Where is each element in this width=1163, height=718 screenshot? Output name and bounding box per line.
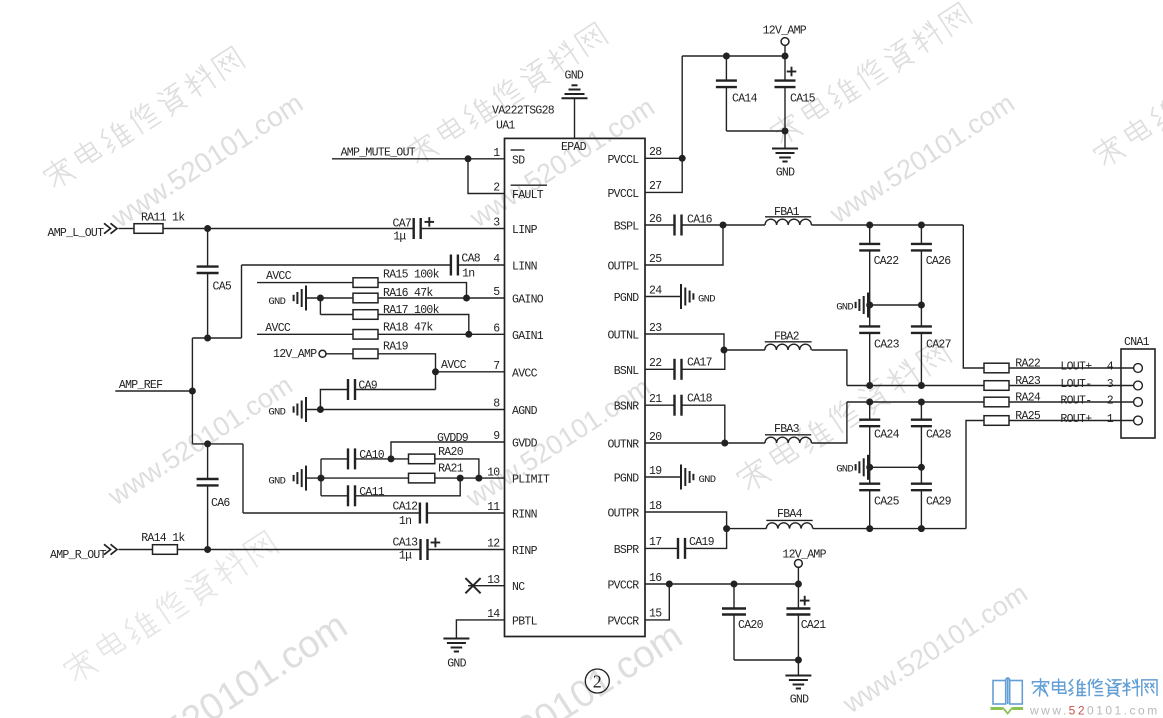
svg-text:520101.com: 520101.com xyxy=(157,605,355,718)
svg-text:BSPL: BSPL xyxy=(614,221,640,234)
svg-text:520101.com: 520101.com xyxy=(492,615,690,718)
node AMP_REF xyxy=(115,379,192,392)
svg-text:CA15: CA15 xyxy=(790,93,816,106)
junction CA26 top xyxy=(918,222,925,229)
resistor RA15 100k xyxy=(353,269,440,288)
junction top rail at CA15 xyxy=(782,53,789,60)
ground GND (PBTL) xyxy=(443,639,469,671)
wire LOUT+ feed xyxy=(963,225,984,368)
resistor RA14 1k xyxy=(141,532,185,554)
wire branch to pin 2 xyxy=(468,159,505,194)
wire CA9 left to gnd rail xyxy=(320,390,348,410)
junction CA6 top xyxy=(204,440,211,447)
svg-text:17: 17 xyxy=(649,536,661,549)
junction gain gnd node xyxy=(317,295,324,302)
wire AVCC to RA15 xyxy=(257,282,353,284)
svg-text:FBA3: FBA3 xyxy=(774,423,800,436)
svg-text:15: 15 xyxy=(649,608,662,621)
svg-text:GND: GND xyxy=(268,407,285,419)
svg-text:PVCCL: PVCCL xyxy=(607,154,639,167)
svg-text:1n: 1n xyxy=(462,267,474,280)
svg-text:2: 2 xyxy=(593,671,602,691)
capacitor CA13 1u (polarized) xyxy=(393,537,441,563)
junction CA27 bottom xyxy=(918,382,925,389)
wire GND to RA16 xyxy=(306,297,353,299)
svg-text:GND: GND xyxy=(268,296,285,308)
capacitor CA6 xyxy=(197,444,231,550)
junction CA22 top xyxy=(866,222,873,229)
wire RA11 to CA7 xyxy=(163,228,414,230)
svg-text:AVCC: AVCC xyxy=(265,322,291,335)
wire pin 18 to FBA4 node xyxy=(645,512,727,529)
junction CA5 bottom xyxy=(204,335,211,342)
svg-text:www.520101.com: www.520101.com xyxy=(837,578,1033,718)
svg-text:9: 9 xyxy=(493,430,500,443)
svg-text:28: 28 xyxy=(649,146,662,159)
svg-text:CA17: CA17 xyxy=(687,357,712,370)
pin 26 label BSPL xyxy=(614,213,663,234)
svg-text:BSNR: BSNR xyxy=(614,401,640,414)
capacitor CA7 1u (polarized) xyxy=(393,217,435,243)
wire RA20 to pin10 node xyxy=(435,459,479,478)
capacitor CA18 xyxy=(645,393,725,444)
svg-text:GAINO: GAINO xyxy=(512,294,544,307)
svg-text:GND: GND xyxy=(776,167,795,180)
logo text (site name) xyxy=(1033,679,1158,697)
node 12V_AMP (RA19) xyxy=(273,348,326,361)
svg-text:CA26: CA26 xyxy=(926,255,952,268)
node LOUT- xyxy=(1060,378,1113,391)
wire FBA3 out xyxy=(811,402,847,443)
wire gnd branch down xyxy=(319,298,321,315)
pin 12 label RINP xyxy=(487,538,538,558)
svg-text:PGND: PGND xyxy=(614,292,640,305)
svg-text:CA25: CA25 xyxy=(874,496,900,509)
svg-text:OUTPR: OUTPR xyxy=(607,508,639,521)
svg-text:AGND: AGND xyxy=(512,405,538,418)
wire FBA4 out xyxy=(813,528,966,530)
wire RA16 to pin 5 xyxy=(378,297,505,299)
port AMP_R_OUT xyxy=(50,544,117,562)
logo book icon xyxy=(991,678,1024,714)
pin 10 label PLIMIT xyxy=(487,466,550,486)
svg-text:PVCCL: PVCCL xyxy=(607,188,639,201)
capacitor CA16 xyxy=(645,214,723,236)
node 12V_AMP (top) xyxy=(763,24,807,45)
svg-text:OUTNR: OUTNR xyxy=(607,439,639,452)
wire pin 14 to ground xyxy=(456,620,504,638)
pin 24 label PGND xyxy=(614,284,663,305)
resistor RA20 xyxy=(391,446,464,464)
pin 28 label PVCCL xyxy=(607,146,662,167)
svg-text:ROUT-: ROUT- xyxy=(1060,395,1091,408)
wire AMP_MUTE_OUT to pin 1 xyxy=(332,158,505,160)
svg-text:PBTL: PBTL xyxy=(512,615,538,628)
resistor RA22 xyxy=(984,358,1041,373)
svg-text:6: 6 xyxy=(493,323,500,336)
node AVCC (pin7) xyxy=(441,359,467,372)
resistor RA24 xyxy=(984,392,1041,407)
svg-text:CA13: CA13 xyxy=(393,537,419,550)
ground GND (PLIMIT) xyxy=(268,466,306,491)
svg-text:CA11: CA11 xyxy=(359,486,385,499)
inductor FBA2 xyxy=(724,331,812,351)
pin 16 label PVCCR xyxy=(607,572,662,593)
junction BSPL node xyxy=(720,222,727,229)
pin 25 label OUTPL xyxy=(607,253,662,274)
pin 21 label BSNR xyxy=(614,393,663,414)
junction CA21 top xyxy=(795,581,802,588)
wire left rail top xyxy=(192,337,241,339)
junction FBA4 in xyxy=(723,525,730,532)
capacitor CA23 xyxy=(859,305,899,386)
connector CNA1 xyxy=(1121,336,1155,438)
wire CA8 to pin 4 xyxy=(458,264,504,266)
wire CA12 to pin 11 xyxy=(427,512,504,514)
svg-text:FAULT: FAULT xyxy=(512,189,544,202)
wire pin 28 stub xyxy=(645,157,682,159)
node ROUT+ xyxy=(1060,413,1113,426)
inductor FBA3 xyxy=(765,423,811,443)
svg-text:24: 24 xyxy=(649,284,662,297)
svg-text:20: 20 xyxy=(649,431,662,444)
svg-text:18: 18 xyxy=(649,500,662,513)
wire CA14 bottom to CA15 bottom xyxy=(726,130,785,132)
pin 2 label FAULT xyxy=(493,182,547,202)
wire R filter gnd row xyxy=(868,466,921,468)
pin 11 label RINN xyxy=(487,501,537,521)
svg-text:LOUT+: LOUT+ xyxy=(1060,361,1092,374)
svg-text:2: 2 xyxy=(493,182,500,195)
junction CA28/CA29 gnd xyxy=(918,464,925,471)
resistor RA11 1k xyxy=(134,212,185,234)
ground GND (AGND) xyxy=(268,397,306,422)
svg-text:25: 25 xyxy=(649,253,662,266)
svg-text:AVCC: AVCC xyxy=(512,367,538,380)
wire RA18 to pin 6 xyxy=(378,333,505,335)
capacitor CA22 xyxy=(859,225,899,305)
capacitor CA15 (polarized) xyxy=(775,56,816,131)
svg-text:CA23: CA23 xyxy=(874,339,900,352)
junction pin16/pin15 xyxy=(666,581,673,588)
svg-text:www.520101.com: www.520101.com xyxy=(1029,704,1160,718)
junction pin5 node xyxy=(463,295,470,302)
resistor RA18 47k xyxy=(353,322,433,340)
svg-text:GND: GND xyxy=(565,70,584,83)
svg-text:1n: 1n xyxy=(399,515,411,528)
ground GND (EPAD) xyxy=(562,70,588,139)
node GVDD9 xyxy=(437,432,469,445)
svg-text:AVCC: AVCC xyxy=(266,270,292,283)
capacitor CA28 xyxy=(911,402,952,467)
svg-text:CNA1: CNA1 xyxy=(1124,336,1150,349)
svg-text:RA11 1k: RA11 1k xyxy=(141,212,185,225)
wire CA9 right xyxy=(355,389,436,391)
svg-text:26: 26 xyxy=(649,213,662,226)
wire AVCC to RA18 xyxy=(257,333,353,335)
capacitor CA17 xyxy=(645,350,725,380)
wire CA11 right xyxy=(355,478,460,496)
svg-text:2: 2 xyxy=(1107,395,1114,408)
svg-text:CA22: CA22 xyxy=(874,255,900,268)
svg-text:CA5: CA5 xyxy=(213,281,232,294)
capacitor CA20 xyxy=(722,584,764,660)
pin 4 label LINN xyxy=(493,253,537,273)
junction FBA2 in xyxy=(721,347,728,354)
port AMP_L_OUT xyxy=(48,223,118,240)
junction AMP_R node xyxy=(204,546,211,553)
connector pin 1 xyxy=(1134,416,1143,425)
wire CA20 bottom xyxy=(734,659,798,661)
inductor FBA1 xyxy=(723,206,811,225)
svg-text:GND: GND xyxy=(268,475,285,487)
svg-text:CA10: CA10 xyxy=(359,449,385,462)
svg-text:CA20: CA20 xyxy=(738,619,764,632)
svg-text:27: 27 xyxy=(649,180,661,193)
pin 1 label SD xyxy=(493,147,525,167)
junction CA21 gnd xyxy=(795,657,802,664)
junction AMP_L node xyxy=(204,225,211,232)
svg-text:11: 11 xyxy=(487,501,500,514)
capacitor CA11 xyxy=(348,485,385,506)
svg-text:AVCC: AVCC xyxy=(441,359,467,372)
ground GND (gain) xyxy=(268,286,306,311)
junction CA25 bottom xyxy=(866,525,873,532)
svg-text:RA19: RA19 xyxy=(383,341,409,354)
svg-text:NC: NC xyxy=(512,581,525,594)
svg-text:22: 22 xyxy=(649,357,662,370)
svg-text:1: 1 xyxy=(493,147,500,160)
svg-text:UA1: UA1 xyxy=(496,120,515,133)
wire rail to CA8 row xyxy=(241,265,243,338)
wire AMP_R_OUT to RA14 xyxy=(119,549,153,551)
svg-text:RA14 1k: RA14 1k xyxy=(141,532,185,545)
junction CA20 top xyxy=(731,581,738,588)
capacitor CA9 xyxy=(348,379,378,400)
svg-text:FBA4: FBA4 xyxy=(777,508,803,521)
svg-text:21: 21 xyxy=(649,393,662,406)
ground GND (pin19) xyxy=(645,465,716,490)
svg-text:1μ: 1μ xyxy=(393,231,406,244)
wire 12V to RA19 xyxy=(326,353,353,355)
svg-text:GVDD9: GVDD9 xyxy=(437,432,469,445)
svg-text:12V_AMP: 12V_AMP xyxy=(763,24,807,37)
pin 23 label OUTNL xyxy=(607,322,662,343)
svg-text:RINN: RINN xyxy=(512,509,537,522)
pin 9 label GVDD xyxy=(493,430,537,450)
page number 2 (circled) xyxy=(585,669,609,693)
pin 27 label PVCCL xyxy=(607,180,661,201)
svg-text:CA21: CA21 xyxy=(801,619,827,632)
capacitor CA12 1n xyxy=(393,501,427,529)
wire left rail bottom xyxy=(192,443,243,445)
wire pin 15 to rail xyxy=(645,584,669,620)
svg-text:12V_AMP: 12V_AMP xyxy=(273,348,317,361)
capacitor CA29 xyxy=(911,467,952,528)
wire pin 20 to FBA3 xyxy=(645,442,765,444)
resistor RA19 xyxy=(353,341,409,359)
svg-text:4: 4 xyxy=(493,253,500,266)
capacitor CA8 1n xyxy=(451,252,481,280)
IC UA1 VA222TSG28 body xyxy=(505,138,646,636)
ground GND (R filter) xyxy=(836,455,868,480)
ground GND (CA15) xyxy=(772,131,798,180)
svg-text:PGND: PGND xyxy=(614,473,640,486)
IC refdes UA1 xyxy=(496,120,515,133)
svg-text:RA15 100k: RA15 100k xyxy=(383,269,440,282)
capacitor CA21 (polarized) xyxy=(786,584,826,660)
svg-text:PVCCR: PVCCR xyxy=(607,615,639,628)
junction CA24 top xyxy=(866,399,873,406)
junction CA26/CA27 gnd xyxy=(918,302,925,309)
wire LOUT- row xyxy=(847,385,984,387)
junction CA24/CA25 gnd xyxy=(866,464,873,471)
wire gnd to RA17 xyxy=(320,314,353,316)
svg-text:23: 23 xyxy=(649,322,662,335)
svg-text:12V_AMP: 12V_AMP xyxy=(782,549,826,562)
wire ROUT- to connector xyxy=(1009,401,1134,403)
junction AGND node xyxy=(317,406,324,413)
svg-text:CA24: CA24 xyxy=(874,429,900,442)
wire CA8 left xyxy=(242,264,451,266)
junction plimit gnd node xyxy=(318,475,325,482)
capacitor CA19 xyxy=(645,529,727,559)
pin 6 label GAIN1 xyxy=(493,323,544,343)
wire RA14 to CA13 xyxy=(177,549,420,551)
svg-text:12: 12 xyxy=(487,538,500,551)
wire 12V to rail xyxy=(797,567,799,584)
wire rail to CA12 row xyxy=(242,444,244,513)
capacitor CA24 xyxy=(859,402,899,467)
svg-text:5: 5 xyxy=(493,286,500,299)
connector pin 4 xyxy=(1134,364,1143,373)
junction pin1/pin2 branch xyxy=(465,155,472,162)
wire top supply rail xyxy=(682,55,785,57)
wire GND to RA21 xyxy=(306,477,409,479)
svg-text:www.520101.com: www.520101.com xyxy=(824,88,1020,230)
svg-text:SD: SD xyxy=(512,154,525,167)
node LOUT+ xyxy=(1060,361,1113,374)
wire FBA1 out xyxy=(811,224,963,226)
svg-text:GND: GND xyxy=(790,694,809,707)
svg-text:7: 7 xyxy=(493,360,499,373)
connector pin 2 xyxy=(1134,398,1143,407)
wire RA15 to pin5 node xyxy=(378,283,467,298)
svg-text:RA20: RA20 xyxy=(438,446,464,459)
svg-text:1μ: 1μ xyxy=(399,549,412,562)
svg-text:GND: GND xyxy=(698,293,715,305)
svg-text:CA14: CA14 xyxy=(732,93,758,106)
wire CA12 left xyxy=(243,512,420,514)
svg-text:CA18: CA18 xyxy=(687,393,713,406)
svg-text:13: 13 xyxy=(487,574,500,587)
wire AMP_L_OUT to RA11 xyxy=(119,228,135,230)
resistor RA16 47k xyxy=(353,287,433,303)
svg-text:16: 16 xyxy=(649,572,662,585)
junction CA14/CA15 ground node xyxy=(782,128,789,135)
svg-text:BSNL: BSNL xyxy=(614,365,640,378)
capacitor CA14 xyxy=(716,56,758,131)
node AVCC (gain1) xyxy=(265,322,291,335)
svg-text:GND: GND xyxy=(447,658,466,671)
junction CA22/CA23 gnd xyxy=(866,302,873,309)
node AMP_MUTE_OUT xyxy=(341,147,416,160)
svg-text:LINP: LINP xyxy=(512,224,538,237)
wire pin 16 rail xyxy=(645,583,798,585)
ground GND (pin24) xyxy=(645,284,715,309)
pin 18 label OUTPR xyxy=(607,500,662,521)
wire RA21 to pin 10 xyxy=(435,477,505,479)
pin 13 label NC xyxy=(487,574,525,594)
resistor RA23 xyxy=(984,375,1041,390)
svg-text:1: 1 xyxy=(1107,413,1114,426)
junction pin10 node xyxy=(475,475,482,482)
svg-text:EPAD: EPAD xyxy=(561,141,587,154)
svg-text:4: 4 xyxy=(1107,361,1114,374)
wire L filter gnd row xyxy=(868,304,921,306)
svg-text:AMP_REF: AMP_REF xyxy=(119,379,163,392)
svg-text:LOUT-: LOUT- xyxy=(1060,378,1091,391)
svg-text:3: 3 xyxy=(493,217,500,230)
pin 22 label BSNL xyxy=(614,357,663,378)
wire LOUT+ to connector xyxy=(1009,367,1134,369)
svg-text:CA28: CA28 xyxy=(926,429,952,442)
pin 15 label PVCCR xyxy=(607,608,662,629)
svg-text:CA9: CA9 xyxy=(358,380,377,393)
svg-text:CA12: CA12 xyxy=(393,501,419,514)
svg-text:CA29: CA29 xyxy=(926,496,952,509)
svg-text:CA7: CA7 xyxy=(393,217,412,230)
svg-text:CA27: CA27 xyxy=(926,339,951,352)
junction FBA3 in xyxy=(721,440,728,447)
svg-text:GND: GND xyxy=(836,301,853,313)
wire ROUT+ feed xyxy=(966,421,984,529)
pin 20 label OUTNR xyxy=(607,431,662,452)
wire LOUT- to connector xyxy=(1009,385,1134,387)
junction AMP_REF node xyxy=(189,388,196,395)
wire pin 23 to FBA2 node xyxy=(645,334,724,350)
resistor RA25 xyxy=(984,410,1041,425)
junction pin 28 xyxy=(679,155,686,162)
svg-text:PLIMIT: PLIMIT xyxy=(512,474,550,487)
ground GND (CA21) xyxy=(785,660,811,707)
capacitor CA10 xyxy=(348,448,385,469)
wire RA17 to pin6 node xyxy=(378,315,469,335)
pin 3 label LINP xyxy=(493,217,537,237)
svg-text:RINP: RINP xyxy=(512,545,538,558)
wire GND to pin 8 xyxy=(306,409,505,411)
capacitor CA27 xyxy=(911,305,951,386)
connector pin 3 xyxy=(1134,381,1143,390)
pin 17 label BSPR xyxy=(614,536,662,557)
capacitor CA25 xyxy=(859,467,899,528)
no-connect X pin 13 xyxy=(465,578,504,593)
svg-text:CA6: CA6 xyxy=(211,497,230,510)
svg-text:LINN: LINN xyxy=(512,261,537,274)
junction CA28 top xyxy=(918,399,925,406)
wire CA10 right xyxy=(355,458,391,460)
wire gnd rail vertical xyxy=(320,459,322,496)
pin 19 label PGND xyxy=(614,465,663,486)
svg-text:GAIN1: GAIN1 xyxy=(512,330,544,343)
wire pin 27 to rail xyxy=(645,158,682,192)
svg-text:OUTNL: OUTNL xyxy=(607,330,639,343)
svg-text:RA21: RA21 xyxy=(438,463,464,476)
wire CA13 to pin 12 xyxy=(428,549,505,551)
svg-text:ROUT+: ROUT+ xyxy=(1060,413,1092,426)
pin 5 label GAINO xyxy=(493,286,544,306)
svg-text:GND: GND xyxy=(699,474,716,486)
